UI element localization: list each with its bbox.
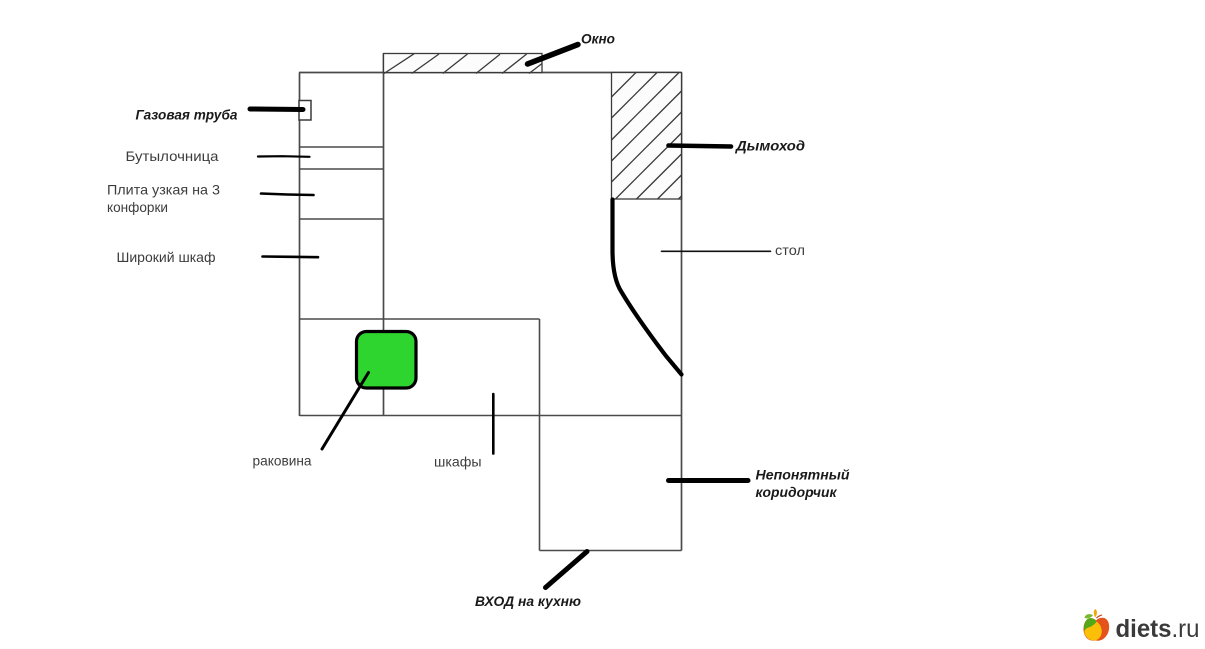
svg-text:раковина: раковина — [253, 453, 312, 469]
leader: bottle holder — [258, 155, 310, 158]
window: hatched box top — [384, 54, 543, 74]
logo: diets.ru text — [1116, 615, 1200, 643]
leader: gas pipe (thick) — [250, 107, 303, 113]
shelf line: bottle holder top — [300, 146, 384, 148]
svg-text:Окно: Окно — [581, 31, 615, 47]
leader: wide cabinet — [263, 255, 319, 258]
svg-text:стол: стол — [775, 242, 805, 258]
svg-text:Плита узкая на 3: Плита узкая на 3 — [107, 182, 220, 198]
wall: right wall — [681, 73, 683, 551]
apple stem — [1096, 615, 1102, 619]
gas pipe small rect — [299, 101, 311, 121]
svg-text:Непонятный: Непонятный — [756, 467, 850, 483]
corridor bottom wall — [540, 550, 682, 552]
logo: diets.ru apple — [1083, 609, 1109, 641]
leader: cabinets (vertical) — [492, 394, 495, 454]
leader: entrance (thick diagonal) — [546, 552, 588, 588]
svg-text:diets.ru: diets.ru — [1116, 615, 1200, 643]
sink green square — [357, 332, 417, 389]
counter box top — [300, 318, 540, 320]
svg-text:Широкий шкаф: Широкий шкаф — [117, 249, 216, 265]
apple body red — [1083, 618, 1109, 641]
svg-text:Газовая труба: Газовая труба — [136, 107, 238, 123]
apple yellow front — [1084, 622, 1101, 641]
leader: window (thick diagonal) — [528, 45, 579, 65]
svg-text:шкафы: шкафы — [434, 454, 482, 470]
svg-text:Дымоход: Дымоход — [735, 138, 805, 154]
corridor left wall — [539, 319, 541, 551]
svg-text:ВХОД на кухню: ВХОД на кухню — [475, 593, 581, 609]
wall: left cabinet strip right vertical — [383, 54, 385, 417]
leader: chimney (thick) — [669, 146, 732, 147]
door arc curve — [613, 200, 682, 375]
svg-text:Бутылочница: Бутылочница — [126, 148, 219, 164]
svg-text:коридорчик: коридорчик — [756, 484, 838, 500]
wall: main top line — [299, 72, 682, 74]
counter box bottom long line — [300, 415, 682, 417]
leader: stove — [261, 194, 314, 196]
svg-text:конфорки: конфорки — [107, 199, 168, 215]
apple yellow leaf — [1094, 609, 1097, 618]
chimney: hatched box right — [612, 73, 682, 200]
apple green patch — [1084, 618, 1096, 632]
leader: sink (diagonal) — [322, 373, 369, 450]
shelf line: stove bottom — [300, 218, 384, 220]
wall: left cabinet strip left vertical — [299, 73, 301, 417]
shelf line: bottle holder bottom — [300, 168, 384, 170]
leader: corridor (thick) — [669, 478, 749, 483]
leader: table (thin) — [662, 250, 771, 252]
apple green leaf — [1085, 614, 1094, 618]
